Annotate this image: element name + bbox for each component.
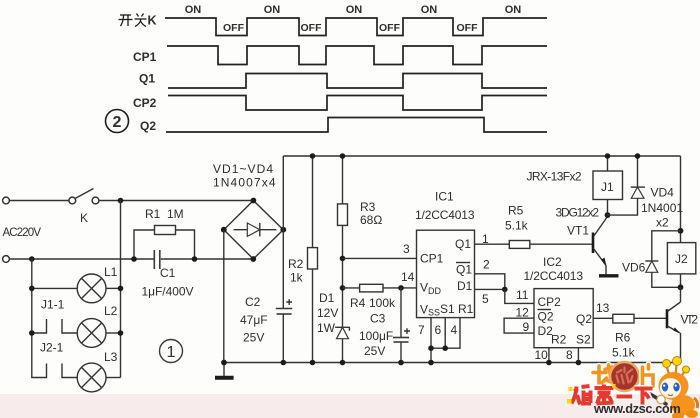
svg-text:V: V bbox=[420, 303, 428, 317]
mascot arm with pen bbox=[646, 391, 667, 404]
circled figure number 1 bbox=[160, 340, 183, 363]
svg-text:12: 12 bbox=[516, 306, 530, 320]
svg-text:1k: 1k bbox=[290, 271, 304, 285]
svg-text:OFF: OFF bbox=[223, 22, 245, 34]
resistor R4 bbox=[343, 284, 417, 292]
resistor R5 bbox=[509, 241, 530, 249]
svg-text:R4: R4 bbox=[350, 296, 366, 310]
svg-text:IC1: IC1 bbox=[435, 190, 454, 204]
flyback diode VD4 bbox=[608, 156, 646, 215]
node C3 ground junction bbox=[398, 360, 404, 366]
svg-text:13: 13 bbox=[596, 301, 610, 315]
svg-text:1/2CC4013: 1/2CC4013 bbox=[415, 208, 475, 222]
ground rail bottom bbox=[224, 362, 681, 364]
right rail down bbox=[680, 156, 682, 243]
node IC2 pin10 ground junction bbox=[546, 360, 552, 366]
svg-text:47μF: 47μF bbox=[240, 313, 268, 327]
mascot body and feet bbox=[671, 395, 698, 418]
svg-text:5.1k: 5.1k bbox=[505, 219, 529, 233]
svg-text:Q2: Q2 bbox=[576, 312, 592, 326]
svg-text:1: 1 bbox=[167, 344, 176, 361]
svg-text:R6: R6 bbox=[615, 331, 631, 345]
svg-text:CP1: CP1 bbox=[420, 252, 444, 266]
node J1 rail junction bbox=[605, 153, 611, 159]
wire switch to bridge top bbox=[99, 200, 253, 202]
node VT1 collector junction bbox=[605, 212, 611, 218]
svg-text:14: 14 bbox=[401, 270, 415, 284]
svg-text:ON: ON bbox=[421, 4, 438, 16]
IC1 pins 7 6 4 bbox=[431, 318, 460, 363]
svg-text:9: 9 bbox=[523, 320, 530, 334]
svg-text:S2: S2 bbox=[576, 333, 591, 347]
svg-text:L1: L1 bbox=[104, 265, 118, 279]
node bridge AC top vertex bbox=[251, 198, 257, 204]
svg-text:J2: J2 bbox=[675, 252, 688, 266]
svg-text:12V: 12V bbox=[317, 306, 338, 320]
svg-text:R5: R5 bbox=[508, 204, 524, 218]
lamp bus left vertical bbox=[32, 259, 47, 378]
dc positive riser bbox=[282, 156, 284, 230]
svg-text:3: 3 bbox=[403, 242, 410, 256]
svg-text:VT1: VT1 bbox=[567, 224, 589, 238]
node lamp bus AC junction bbox=[29, 256, 35, 262]
node L1 left junction bbox=[29, 286, 35, 292]
svg-text:J1-1: J1-1 bbox=[41, 298, 65, 312]
svg-text:Q1: Q1 bbox=[139, 72, 155, 86]
node C1 right bbox=[192, 256, 198, 262]
ground wire from bridge left vertex bbox=[223, 230, 225, 363]
capacitor C1 bbox=[154, 250, 160, 269]
IC1 box bbox=[417, 230, 475, 317]
svg-text:ON: ON bbox=[505, 4, 522, 16]
svg-text:C1: C1 bbox=[160, 266, 176, 280]
switch K bbox=[69, 189, 99, 204]
svg-text:R1: R1 bbox=[145, 207, 161, 221]
svg-text:OFF: OFF bbox=[301, 22, 323, 34]
svg-text:S1: S1 bbox=[440, 302, 455, 316]
svg-text:6: 6 bbox=[435, 323, 442, 337]
svg-text:3DG12x2: 3DG12x2 bbox=[556, 206, 600, 220]
node VDD C3 junction bbox=[398, 285, 404, 291]
node bridge DC negative vertex bbox=[221, 227, 227, 233]
lamp bus right vertical bbox=[120, 201, 122, 378]
svg-text:L3: L3 bbox=[104, 350, 118, 364]
svg-text:1/2CC4013: 1/2CC4013 bbox=[524, 269, 584, 283]
lamp L2 bbox=[77, 319, 120, 348]
relay contact J2-1 bbox=[62, 364, 77, 378]
svg-text:AC220V: AC220V bbox=[3, 227, 42, 239]
svg-text:CP1: CP1 bbox=[133, 50, 157, 64]
svg-text:VD6: VD6 bbox=[622, 261, 646, 275]
svg-text:Q1: Q1 bbox=[456, 263, 472, 277]
svg-text:D1: D1 bbox=[319, 291, 335, 305]
svg-text:CP2: CP2 bbox=[538, 295, 562, 309]
svg-text:Q2: Q2 bbox=[140, 119, 156, 133]
ON labels bbox=[185, 4, 522, 16]
svg-text:10: 10 bbox=[535, 348, 549, 362]
waveform Q2 bbox=[166, 118, 547, 133]
node ground rail left end bbox=[221, 360, 227, 366]
svg-text:1μF/400V: 1μF/400V bbox=[142, 285, 194, 299]
logo character zhao bbox=[593, 365, 612, 386]
node L2 left junction bbox=[29, 330, 35, 336]
svg-text:4: 4 bbox=[451, 323, 458, 337]
svg-text:www.dzsc.com: www.dzsc.com bbox=[593, 401, 681, 416]
node R3 top rail junction bbox=[340, 153, 346, 159]
resistor R2 bbox=[308, 156, 318, 363]
svg-text:L2: L2 bbox=[104, 304, 118, 318]
svg-text:1N4007x4: 1N4007x4 bbox=[213, 176, 276, 190]
svg-text:IC2: IC2 bbox=[543, 255, 562, 269]
resistor R3 bbox=[338, 156, 348, 327]
IC1 pin 2 wire bbox=[475, 274, 505, 290]
node CP1 junction bbox=[340, 256, 346, 262]
svg-text:OFF: OFF bbox=[379, 22, 401, 34]
terminal bottom left bbox=[3, 256, 10, 263]
bridge rectifier VD1-VD4 bbox=[224, 201, 283, 260]
relay coil J1 bbox=[593, 156, 623, 215]
node Vss ground junction bbox=[428, 360, 434, 366]
svg-text:100μF: 100μF bbox=[359, 329, 393, 343]
mascot head bbox=[659, 372, 689, 400]
svg-text:K: K bbox=[80, 211, 88, 225]
svg-text:C3: C3 bbox=[370, 312, 386, 326]
mascot antennae bbox=[663, 357, 690, 380]
svg-text:5: 5 bbox=[482, 292, 489, 306]
capacitor C3 bbox=[393, 288, 410, 363]
wire AC bottom bbox=[10, 258, 155, 260]
IC2 box bbox=[534, 289, 593, 348]
IC2 pins 10 8 bbox=[548, 348, 550, 363]
svg-text:V: V bbox=[420, 281, 428, 295]
svg-text:25V: 25V bbox=[243, 331, 264, 345]
svg-text:J2-1: J2-1 bbox=[40, 341, 64, 355]
label 开关K (switch K row) bbox=[119, 14, 147, 27]
node C1 left bbox=[131, 256, 137, 262]
svg-text:68Ω: 68Ω bbox=[360, 213, 382, 227]
svg-text:7: 7 bbox=[418, 323, 425, 337]
IC2 pin 13 wire bbox=[593, 317, 613, 319]
wire AC top to switch bbox=[10, 200, 69, 202]
node Q1bar D1 tie bbox=[502, 287, 508, 293]
svg-text:OFF: OFF bbox=[457, 22, 479, 34]
zener diode D1 bbox=[335, 327, 349, 362]
logo character pian bbox=[643, 365, 654, 387]
wire to IC1 pin3 bbox=[343, 257, 417, 259]
svg-text:DD: DD bbox=[428, 286, 441, 296]
node R2 top rail junction bbox=[310, 153, 316, 159]
relay contact J1-1 bbox=[32, 319, 77, 333]
transistor VT2 bbox=[667, 287, 681, 362]
waveform Q1 bbox=[168, 74, 547, 89]
node VT2 collector junction bbox=[678, 284, 684, 290]
lamp L3 bbox=[77, 363, 120, 392]
svg-text:1W: 1W bbox=[317, 321, 336, 335]
svg-text:100k: 100k bbox=[369, 296, 396, 310]
svg-text:Q2: Q2 bbox=[538, 310, 554, 324]
svg-text:C2: C2 bbox=[245, 295, 261, 309]
node bridge AC bottom vertex bbox=[250, 256, 256, 262]
svg-text:Q1: Q1 bbox=[455, 237, 471, 251]
node C2 ground junction bbox=[281, 360, 287, 366]
IC1 pin 5 wire bbox=[475, 288, 505, 290]
svg-text:1N4001: 1N4001 bbox=[641, 201, 683, 215]
terminal top left bbox=[3, 197, 10, 204]
waveform CP1 bbox=[167, 46, 547, 65]
svg-text:CP2: CP2 bbox=[133, 96, 157, 110]
svg-text:VD1~VD4: VD1~VD4 bbox=[213, 162, 273, 176]
yellow sparkle accents bbox=[567, 384, 616, 404]
svg-text:x2: x2 bbox=[656, 216, 669, 230]
node bridge DC positive vertex bbox=[280, 227, 286, 233]
svg-text:1: 1 bbox=[482, 232, 489, 246]
svg-text:1M: 1M bbox=[167, 207, 184, 221]
svg-text:R2: R2 bbox=[288, 257, 304, 271]
waveform CP2 bbox=[168, 96, 547, 111]
svg-text:5.1k: 5.1k bbox=[612, 346, 636, 360]
node VD4 rail junction bbox=[635, 153, 641, 159]
svg-text:VT2: VT2 bbox=[681, 313, 699, 327]
resistor R1 bbox=[134, 226, 195, 260]
node R2 ground junction bbox=[310, 360, 316, 366]
svg-text:8: 8 bbox=[566, 348, 573, 362]
node zener junction bbox=[340, 285, 346, 291]
smoothing cap C2 bbox=[276, 230, 293, 363]
weiku yixia red characters bbox=[572, 385, 653, 405]
svg-text:R1: R1 bbox=[458, 302, 474, 316]
transistor VT1 bbox=[593, 215, 619, 276]
node IC2 pin8 ground junction bbox=[576, 360, 582, 366]
waveform switch K bbox=[165, 18, 547, 36]
svg-text:2: 2 bbox=[483, 258, 490, 272]
svg-text:D1: D1 bbox=[457, 279, 473, 293]
top supply rail bbox=[283, 155, 680, 157]
wire to IC2 CP2 bbox=[505, 289, 534, 303]
flyback diode VD6 bbox=[645, 231, 680, 287]
OFF labels bbox=[223, 22, 478, 34]
node L1 right junction bbox=[118, 286, 124, 292]
pink footer band bbox=[0, 394, 700, 418]
wire C1 to bridge bottom bbox=[161, 258, 254, 260]
node L2 right junction bbox=[118, 330, 124, 336]
svg-text:ON: ON bbox=[264, 4, 281, 16]
ground symbol bbox=[215, 363, 234, 378]
node D1 ground junction bbox=[340, 360, 346, 366]
svg-text:ON: ON bbox=[346, 4, 363, 16]
svg-text:R2: R2 bbox=[551, 333, 567, 347]
svg-text:J1: J1 bbox=[601, 180, 614, 194]
node lamp bus top junction bbox=[118, 198, 124, 204]
IC2 Q2bar-D2 loop bbox=[504, 318, 534, 333]
svg-text:R3: R3 bbox=[360, 200, 376, 214]
svg-text:2: 2 bbox=[113, 114, 122, 131]
IC1 pin names bbox=[420, 237, 474, 318]
svg-text:JRX-13Fx2: JRX-13Fx2 bbox=[527, 170, 582, 184]
svg-text:VD4: VD4 bbox=[651, 186, 675, 200]
svg-text:SS: SS bbox=[428, 308, 440, 318]
node S1 R1 tie bbox=[428, 345, 434, 351]
node J2 top junction bbox=[678, 228, 684, 234]
lamp L1 bbox=[32, 274, 121, 303]
IC2 pin names bbox=[538, 295, 593, 347]
relay coil J2 bbox=[667, 243, 695, 288]
circled figure number 2 bbox=[106, 110, 129, 133]
svg-text:ON: ON bbox=[185, 4, 202, 16]
IC1 pin 1 wire bbox=[475, 243, 510, 245]
svg-text:K: K bbox=[148, 14, 157, 28]
resistor R6 bbox=[613, 314, 634, 323]
svg-text:25V: 25V bbox=[364, 344, 385, 358]
magnifier circle with xin character bbox=[610, 362, 639, 391]
svg-text:11: 11 bbox=[516, 288, 529, 302]
